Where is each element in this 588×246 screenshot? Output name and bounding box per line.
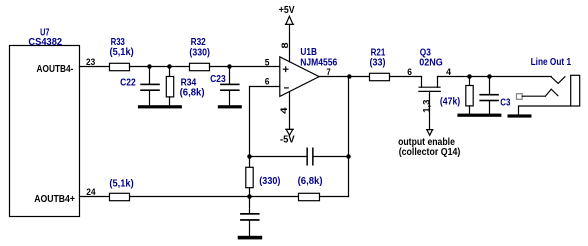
svg-text:4: 4 <box>446 67 451 77</box>
wire feedback left vertical <box>249 87 251 168</box>
svg-text:-5V: -5V <box>280 135 295 146</box>
svg-text:(330): (330) <box>189 47 210 58</box>
transistor Q3 02NG <box>419 48 443 130</box>
wire (6,8k) to feedback vertical <box>320 196 349 198</box>
resistor R34 <box>166 67 204 106</box>
svg-text:6: 6 <box>265 77 270 87</box>
svg-text:5: 5 <box>265 58 270 68</box>
svg-text:C23: C23 <box>210 74 226 85</box>
wire to feedback capacitor left <box>250 156 307 158</box>
wire R32 to op-amp pin 5 <box>210 66 280 68</box>
ground (C23) <box>218 105 242 108</box>
wire feedback capacitor right <box>314 156 349 158</box>
svg-text:23: 23 <box>86 57 95 67</box>
wire Q3 to jack tip contact <box>438 76 552 78</box>
wire R21 to Q3 <box>390 76 422 78</box>
svg-text:(47k): (47k) <box>440 97 460 108</box>
svg-text:(330): (330) <box>259 176 280 187</box>
svg-text:(5,1k): (5,1k) <box>110 47 134 58</box>
svg-text:(33): (33) <box>370 58 386 69</box>
capacitor C22 <box>120 67 160 106</box>
wire op-amp output to R21 <box>319 76 370 78</box>
junction at R34 tap <box>167 64 172 69</box>
wire op-amp V- pin 4 stub <box>289 92 291 130</box>
svg-text:+5V: +5V <box>279 5 295 16</box>
wire (330) bottom stub <box>249 188 251 197</box>
svg-text:(5,1k): (5,1k) <box>109 178 133 189</box>
ground (C22 / R34) <box>138 105 182 108</box>
resistor R33 <box>110 37 134 70</box>
wire op-amp pin 6 horizontal <box>250 86 280 88</box>
junction feedback cap left <box>247 154 252 159</box>
svg-text:AOUTB4-: AOUTB4- <box>37 64 74 75</box>
svg-text:CS4382: CS4382 <box>28 37 62 48</box>
output enable arrow <box>427 130 433 136</box>
capacitor C3 <box>479 77 510 115</box>
junction at C3 tap <box>487 74 492 79</box>
capacitor C23 <box>210 67 240 106</box>
wire pin 24 to resistor (5,1k) <box>80 196 110 198</box>
junction feedback cap right <box>346 154 351 159</box>
svg-text:4: 4 <box>279 107 289 114</box>
-5V supply symbol <box>280 129 295 145</box>
svg-text:02NG: 02NG <box>419 58 443 69</box>
resistor (6,8k) bottom <box>298 176 323 201</box>
wire op-amp V+ pin 8 stub <box>289 24 291 62</box>
resistor (47k) vertical <box>440 77 473 115</box>
svg-text:(6,8k): (6,8k) <box>298 176 323 187</box>
wire R33 to R32 <box>130 66 190 68</box>
connector Line Out 1 <box>517 57 580 115</box>
svg-text:7: 7 <box>327 67 331 77</box>
svg-text:Line Out 1: Line Out 1 <box>531 57 572 68</box>
svg-text:C3: C3 <box>500 97 511 108</box>
svg-text:C22: C22 <box>120 77 136 88</box>
wire feedback right vertical <box>348 77 350 197</box>
svg-text:NJM4556: NJM4556 <box>300 57 337 68</box>
+5V supply symbol <box>279 5 295 24</box>
ground ((47k) / C3) <box>457 114 501 117</box>
junction output node <box>347 74 352 79</box>
op-amp U1B NJM4556 <box>280 47 338 96</box>
capacitor bottom (at node) <box>240 197 260 237</box>
resistor R21 <box>370 48 390 81</box>
wire pin 23 to R33 <box>80 66 110 68</box>
feedback capacitor <box>306 148 313 166</box>
svg-text:(collector Q14): (collector Q14) <box>399 147 461 158</box>
svg-text:(6,8k): (6,8k) <box>180 88 205 99</box>
svg-text:AOUTB4+: AOUTB4+ <box>34 194 75 205</box>
junction bottom node <box>247 194 252 199</box>
resistor (330) vertical <box>246 167 253 187</box>
ground (bottom capacitor) <box>238 236 263 240</box>
svg-text:24: 24 <box>86 187 95 197</box>
junction at (47k) tap <box>467 74 472 79</box>
ground (jack sleeve) <box>508 114 532 117</box>
resistor (5,1k) bottom <box>109 178 133 200</box>
junction at C23 tap <box>227 64 232 69</box>
wire bottom run pin 24 <box>130 196 299 198</box>
svg-text:1,3: 1,3 <box>421 100 431 113</box>
svg-text:8: 8 <box>280 42 290 48</box>
IC U7 CS4382 <box>10 28 80 217</box>
junction at C22 tap <box>147 64 152 69</box>
resistor R32 <box>189 37 210 70</box>
svg-text:6: 6 <box>407 67 412 77</box>
